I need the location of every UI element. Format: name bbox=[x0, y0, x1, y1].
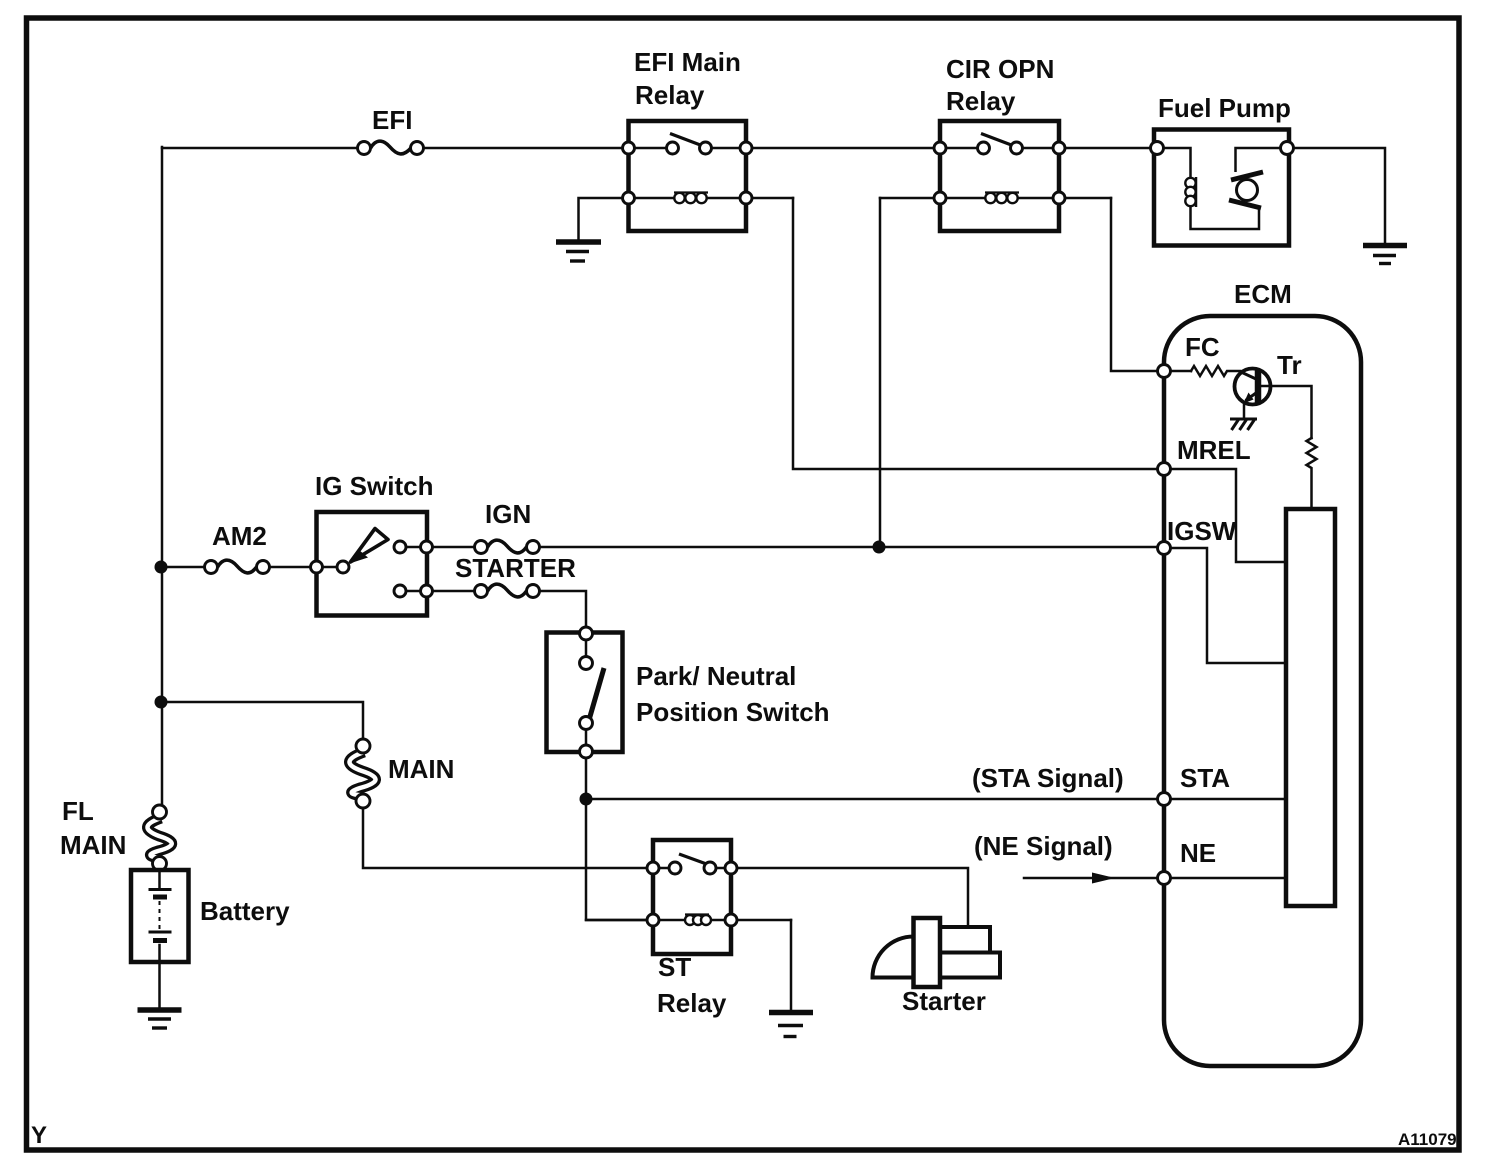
fuse IGN bbox=[475, 540, 540, 553]
battery bbox=[131, 870, 189, 962]
relay CIR OPN box bbox=[940, 121, 1059, 231]
svg-text:Park/ Neutral: Park/ Neutral bbox=[636, 661, 796, 691]
svg-text:Relay: Relay bbox=[635, 80, 705, 110]
svg-text:STARTER: STARTER bbox=[455, 553, 576, 583]
svg-text:EFI Main: EFI Main bbox=[634, 47, 741, 77]
svg-text:AM2: AM2 bbox=[212, 521, 267, 551]
svg-text:CIR OPN: CIR OPN bbox=[946, 54, 1054, 84]
Park/Neutral switch blade bbox=[589, 668, 604, 720]
NE signal arrowhead bbox=[1092, 873, 1115, 884]
wire: CIR OPN coil to IGSW junction bbox=[879, 198, 882, 547]
wire: CIR OPN Relay coil row bbox=[880, 197, 1111, 200]
svg-text:A11079: A11079 bbox=[1398, 1130, 1457, 1149]
wire: ST Relay contact row segments bbox=[653, 867, 731, 870]
IG Switch box bbox=[317, 512, 428, 616]
terminal circles: ST Relay bbox=[647, 862, 737, 926]
junction node at MAIN branch bbox=[155, 696, 168, 709]
svg-text:EFI: EFI bbox=[372, 105, 412, 135]
fuel pump motor bbox=[1229, 172, 1263, 208]
wire: Park/Neutral switch internal connections bbox=[585, 634, 588, 751]
wire: ST Relay coil row bbox=[586, 919, 791, 922]
wire: top main B+ line left of EFI fuse bbox=[162, 147, 358, 150]
svg-text:Fuel Pump: Fuel Pump bbox=[1158, 93, 1291, 123]
svg-text:MAIN: MAIN bbox=[60, 830, 126, 860]
transistor Tr bbox=[1235, 369, 1271, 405]
svg-text:Relay: Relay bbox=[946, 86, 1016, 116]
ground symbol (Battery) bbox=[138, 1010, 182, 1028]
svg-text:Y: Y bbox=[31, 1122, 47, 1149]
wire: ECM IGSW internal bbox=[1171, 548, 1287, 663]
terminal circles: CIR OPN Relay bbox=[934, 142, 1065, 204]
wire: IG Switch to STARTER fuse bbox=[433, 590, 475, 593]
svg-text:MAIN: MAIN bbox=[388, 754, 454, 784]
relay EFI Main coil bbox=[674, 193, 708, 204]
svg-text:(STA Signal): (STA Signal) bbox=[972, 763, 1124, 793]
wire: battery to ground bbox=[158, 870, 161, 1008]
svg-text:FC: FC bbox=[1185, 332, 1220, 362]
svg-text:Tr: Tr bbox=[1277, 350, 1302, 380]
wire: ST Relay contact to Starter bbox=[738, 868, 969, 927]
junction node at AM2 feed bbox=[155, 561, 168, 574]
svg-text:FL: FL bbox=[62, 796, 94, 826]
resistor FC (horizontal zigzag) bbox=[1191, 366, 1240, 376]
fusible link MAIN bbox=[349, 739, 375, 808]
chassis ground (Tr emitter) bbox=[1230, 419, 1257, 430]
svg-text:NE: NE bbox=[1180, 838, 1216, 868]
svg-text:Relay: Relay bbox=[657, 988, 727, 1018]
wire: Park/Neutral switch to ST Relay coil bbox=[586, 758, 647, 920]
wire: ECM FC resistor lead bbox=[1171, 370, 1192, 373]
relay CIR OPN coil bbox=[985, 193, 1019, 204]
wire: IGN fuse to ECM IGSW terminal bbox=[540, 546, 1158, 549]
relay EFI Main box bbox=[629, 121, 747, 231]
wire: EFI Main Relay contact row segments bbox=[629, 147, 747, 150]
wire: STA signal line to ECM bbox=[586, 798, 1158, 801]
fuse STARTER bbox=[475, 584, 540, 597]
Fuel Pump box bbox=[1154, 130, 1289, 246]
ECM outline bbox=[1164, 316, 1361, 1066]
svg-text:IG Switch: IG Switch bbox=[315, 471, 433, 501]
wire: ECM MREL internal bbox=[1171, 469, 1287, 562]
wire: CIR OPN Relay to Fuel Pump bbox=[1059, 147, 1151, 150]
wire: CIR OPN Relay contact row segments bbox=[940, 147, 1059, 150]
svg-text:ECM: ECM bbox=[1234, 279, 1292, 309]
wire: EFI Main Relay coil to ECM MREL terminal bbox=[793, 198, 1158, 469]
fuse EFI bbox=[358, 141, 424, 154]
terminal circles: IG Switch bbox=[311, 541, 433, 597]
svg-text:IGN: IGN bbox=[485, 499, 531, 529]
svg-text:(NE Signal): (NE Signal) bbox=[974, 831, 1113, 861]
wire: left vertical battery feed bbox=[161, 147, 164, 806]
ground symbol (Fuel Pump) bbox=[1363, 246, 1407, 264]
terminal circles: EFI Main Relay bbox=[623, 142, 753, 204]
wire: node to AM2 fuse bbox=[168, 566, 205, 569]
wire: ECM STA internal bbox=[1171, 798, 1287, 801]
svg-text:MREL: MREL bbox=[1177, 435, 1251, 465]
relay ST box bbox=[653, 840, 731, 954]
wire: EFI fuse to EFI Main Relay bbox=[424, 147, 629, 150]
svg-text:ST: ST bbox=[658, 952, 691, 982]
svg-text:Starter: Starter bbox=[902, 986, 986, 1016]
wire: Fuel Pump to ground bbox=[1294, 148, 1386, 243]
relay ST contact blade bbox=[679, 854, 712, 866]
wire: EFI Main Relay coil row and left ground drop bbox=[579, 198, 794, 240]
relay ST coil bbox=[685, 915, 711, 926]
wire: ECM NE internal bbox=[1171, 877, 1287, 880]
starter motor symbol bbox=[873, 918, 1001, 987]
ground symbol (EFI Main Relay) bbox=[556, 242, 601, 261]
fuse AM2 bbox=[205, 560, 270, 573]
svg-text:Battery: Battery bbox=[200, 896, 290, 926]
terminal circles: ECM pins FC MREL IGSW STA NE bbox=[1158, 365, 1171, 885]
wire: transistor emitter to chassis ground bbox=[1243, 402, 1246, 418]
IG Switch blade bbox=[351, 529, 389, 563]
wire: NE signal line bbox=[1024, 877, 1158, 880]
wire: battery node to MAIN fusible link bbox=[161, 702, 363, 739]
relay CIR OPN contact blade bbox=[981, 134, 1014, 147]
transistor Tr collector wire bbox=[1261, 386, 1312, 438]
Park/Neutral Position Switch box bbox=[547, 633, 623, 753]
wire: IG Switch to IGN fuse bbox=[433, 546, 475, 549]
junction node on STA line bbox=[580, 793, 593, 806]
junction node on IGSW line bbox=[873, 541, 886, 554]
ECM internal block bbox=[1286, 509, 1335, 906]
wire: STARTER fuse to Park/Neutral switch bbox=[540, 591, 587, 627]
svg-text:IGSW: IGSW bbox=[1167, 516, 1237, 546]
wire: MAIN link to ST Relay contact bbox=[363, 808, 647, 868]
terminal circles: Park/Neutral switch bbox=[580, 627, 593, 758]
svg-text:STA: STA bbox=[1180, 763, 1230, 793]
ground symbol (ST Relay) bbox=[769, 1013, 813, 1037]
wire: CIR OPN coil to ECM FC terminal bbox=[1111, 198, 1158, 371]
wire: EFI Main Relay to CIR OPN Relay bbox=[746, 147, 940, 150]
resistor in ECM (vertical zigzag) bbox=[1307, 438, 1317, 509]
fuel pump internals bbox=[1164, 148, 1281, 229]
wire: AM2 fuse to IG Switch bbox=[270, 566, 311, 569]
wire: IG Switch internal connections bbox=[323, 547, 421, 591]
terminal circles: Fuel Pump bbox=[1151, 142, 1294, 155]
relay EFI Main contact blade bbox=[670, 134, 703, 147]
fusible link FL MAIN bbox=[147, 805, 171, 871]
wire: ST Relay coil to ground bbox=[790, 920, 793, 1010]
svg-text:Position Switch: Position Switch bbox=[636, 697, 830, 727]
